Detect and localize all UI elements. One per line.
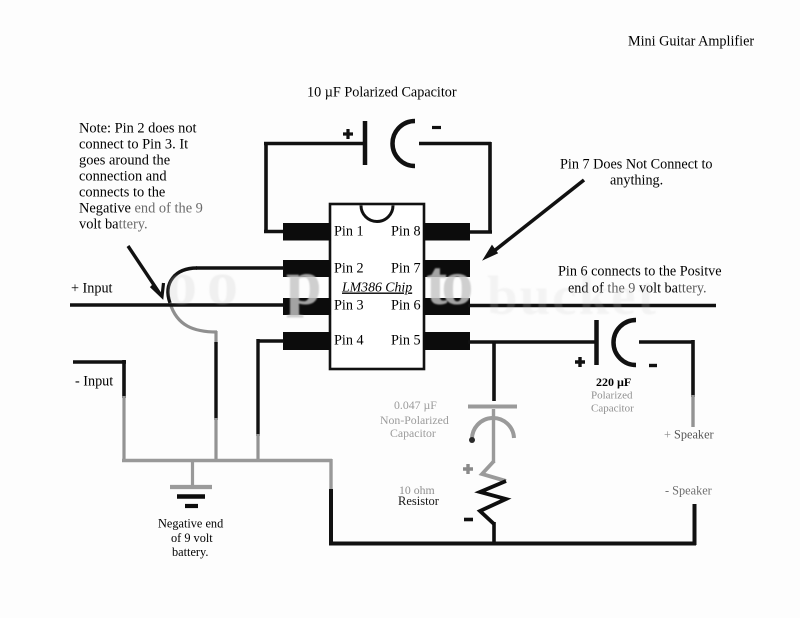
svg-text:Pin 4: Pin 4 (334, 333, 364, 349)
wire: top loop left vertical (264, 143, 268, 232)
wire: loop vertical down to ground bus (214, 331, 217, 344)
wire: pin5 to 220uF cap (468, 340, 595, 344)
ground bar 1 (170, 485, 212, 489)
wire: loop lower arc (gray faded) (170, 303, 217, 332)
wire: pin4 stub (257, 339, 284, 342)
svg-text:+ Input: + Input (71, 281, 113, 297)
svg-text:to: to (426, 247, 471, 318)
svg-text:Negative end: Negative end (158, 517, 223, 531)
svg-text:Pin 8: Pin 8 (391, 224, 421, 240)
chip notch (361, 206, 393, 222)
pin 8 block (423, 223, 470, 241)
pin 4 block (283, 332, 331, 350)
svg-text:Capacitor: Capacitor (390, 426, 436, 440)
ground symbol stem (191, 461, 194, 485)
capacitor C3 220uF plus plate (594, 320, 599, 365)
svg-text:anything.: anything. (610, 173, 663, 189)
capacitor C2 0.047uF flat plate (gray) (468, 405, 517, 409)
pin 2 block (283, 260, 331, 277)
svg-text:LM386 Chip: LM386 Chip (341, 280, 412, 295)
label - of C1 (432, 126, 441, 129)
pin 5 block (423, 332, 470, 350)
svg-text:Note: Pin 2 does not: Note: Pin 2 does not (79, 121, 197, 137)
ground bus (gray) (122, 459, 332, 462)
svg-text:Pin 7: Pin 7 (391, 261, 421, 277)
wire: - input horizontal (73, 360, 126, 364)
pin 1 block (283, 223, 331, 241)
svg-text:battery.: battery. (172, 545, 208, 559)
capacitor C2 curved plate (gray) (472, 418, 514, 440)
capacitor C2 lead through (492, 409, 495, 463)
svg-text:Pin 2: Pin 2 (334, 261, 364, 277)
bus corner down to bottom wire (329, 459, 332, 491)
label - of C3 (649, 364, 657, 367)
capacitor C3 curved plate (614, 320, 637, 365)
svg-text:Capacitor: Capacitor (591, 403, 634, 415)
label + of resistor (gray) (463, 464, 473, 474)
arrow to pin 7 (489, 180, 584, 255)
pin 7 block (423, 260, 470, 277)
svg-text:Negative end of the 9: Negative end of the 9 (79, 201, 203, 217)
svg-text:volt battery.: volt battery. (79, 217, 148, 233)
svg-text:Pin 7 Does Not Connect to: Pin 7 Does Not Connect to (560, 157, 713, 173)
wire: - input vertical (122, 360, 126, 398)
svg-text:- Input: - Input (75, 374, 113, 390)
capacitor C1 10uF plus plate (363, 121, 368, 165)
wire: bottom rail (329, 542, 696, 546)
label + of C3 (575, 357, 585, 367)
resistor R1 zigzag (482, 461, 506, 481)
svg-text:Pin 6: Pin 6 (391, 298, 421, 314)
wire: - speaker lead (693, 504, 697, 545)
svg-text:p: p (286, 247, 322, 318)
wire: top loop right vertical (488, 142, 492, 233)
wire: loop upper arc (hops over + input) (168, 268, 197, 303)
svg-text:connection and: connection and (79, 169, 167, 185)
pin 3 block (283, 298, 331, 315)
svg-text:+ Speaker: + Speaker (664, 428, 714, 442)
capacitor C1 10uF curved plate (393, 121, 416, 166)
wire: pin4 vertical to bus (256, 339, 259, 436)
label - of resistor (464, 518, 473, 522)
label + of C1 (343, 129, 353, 139)
svg-text:Mini Guitar Amplifier: Mini Guitar Amplifier (628, 34, 754, 50)
op-amp chip U1 LM386 body (330, 204, 424, 369)
svg-text:220 µF: 220 µF (596, 375, 631, 389)
ground bar 3 (185, 504, 198, 508)
svg-text:Pin 3: Pin 3 (334, 298, 364, 314)
pin 6 block (423, 298, 470, 315)
wire: branch down to 0.047uF cap (492, 341, 496, 401)
wire: + input line to pin 3 (70, 303, 285, 307)
svg-text:Pin 1: Pin 1 (334, 224, 364, 240)
arrow from note to junction (128, 246, 160, 294)
wire: pin8 stub (468, 230, 492, 234)
svg-text:Polarized: Polarized (591, 390, 633, 402)
svg-text:goes around the: goes around the (79, 153, 170, 169)
svg-text:connects to the: connects to the (79, 185, 165, 201)
wire: top loop left horizontal to cap plus plate (264, 142, 363, 146)
svg-text:connect to Pin 3. It: connect to Pin 3. It (79, 137, 188, 153)
svg-text:bucket: bucket (487, 265, 658, 326)
svg-text:0.047 µF: 0.047 µF (394, 398, 437, 412)
wire: pin2 to loop (196, 266, 284, 269)
dot on curved plate end (469, 437, 475, 443)
wire: C3 to + speaker corner (639, 340, 693, 344)
wire: cap right to top loop right (419, 142, 491, 146)
svg-text:Non-Polarized: Non-Polarized (380, 413, 449, 427)
resistor bottom lead (492, 522, 496, 545)
svg-text:of 9 volt: of 9 volt (171, 531, 213, 545)
ground bar 2 (177, 494, 205, 499)
svg-text:Pin 5: Pin 5 (391, 333, 421, 349)
svg-text:oo: oo (166, 250, 248, 318)
svg-text:Resistor: Resistor (398, 494, 440, 508)
svg-text:10 µF Polarized Capacitor: 10 µF Polarized Capacitor (307, 85, 457, 101)
svg-text:- Speaker: - Speaker (665, 484, 712, 498)
wire: pin6 to +9V (468, 304, 716, 308)
wire: pin1 stub (264, 230, 284, 234)
